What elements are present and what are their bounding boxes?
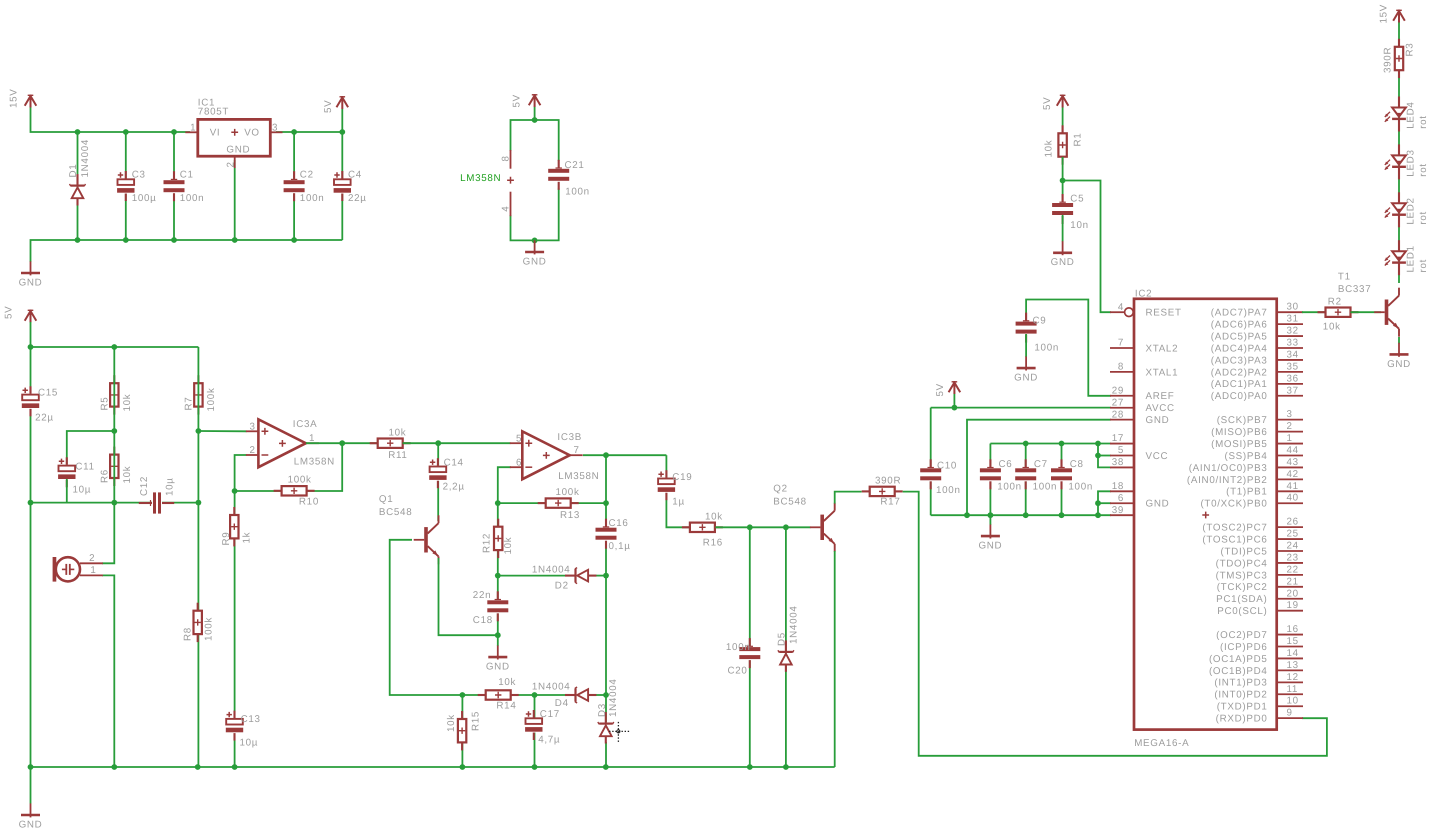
svg-text:T1: T1 [1338,272,1351,283]
pin 14 (OC1A)PD5 (IC2 right) [1209,648,1303,665]
svg-text:C5: C5 [1070,194,1084,205]
svg-text:LM358N: LM358N [294,457,335,468]
pin 16 (OC2)PD7 (IC2 right) [1216,624,1303,641]
svg-text:(T1)PB1: (T1)PB1 [1226,487,1267,498]
ground GND (T1) [1387,343,1411,370]
svg-text:D4: D4 [555,698,569,709]
svg-text:1: 1 [90,565,96,576]
svg-text:D1: D1 [68,164,79,178]
svg-text:8: 8 [501,155,512,161]
svg-text:1N4004: 1N4004 [789,605,800,644]
svg-text:38: 38 [1112,457,1124,468]
svg-text:10k: 10k [705,511,723,522]
wire IC1 pin2 branch [234,160,236,240]
svg-text:100n: 100n [1068,481,1093,492]
pin 24 (TDI)PC5 (IC2 right) [1221,541,1303,558]
voltage regulator IC1 7805T [185,98,282,168]
svg-text:C4: C4 [348,170,362,181]
wire R14 row [460,692,607,698]
svg-text:RESET: RESET [1146,308,1182,319]
resistor R14 10k [478,677,519,712]
svg-text:R15: R15 [470,711,481,731]
capacitor C7 100n [1015,459,1058,493]
svg-text:10: 10 [1287,696,1299,707]
pin 26 (TOSC2)PC7 (IC2 right) [1202,517,1303,534]
svg-text:2: 2 [225,161,236,167]
svg-text:1N4004: 1N4004 [532,564,571,575]
wire op-amp power top [511,107,559,161]
pin 2 (MISO)PB6 (IC2 right) [1211,421,1303,438]
svg-text:10k: 10k [122,394,133,412]
op-amp IC3A LM358N [246,419,335,468]
svg-text:36: 36 [1287,373,1299,384]
wire mid row (C12 net) [31,500,202,506]
svg-text:6: 6 [1118,493,1124,504]
supply 15V input [9,88,37,108]
svg-text:18: 18 [1112,481,1124,492]
svg-text:C20: C20 [728,666,748,677]
svg-text:4: 4 [1118,302,1124,313]
ground GND (power supply) [19,261,43,288]
svg-text:(INT0)PD2: (INT0)PD2 [1214,690,1267,701]
wire C8 column [1061,444,1063,516]
svg-text:15V: 15V [1379,4,1390,24]
svg-text:5V: 5V [512,94,523,107]
svg-text:LM358N: LM358N [558,471,599,482]
svg-text:390R: 390R [1382,47,1393,73]
svg-text:BC548: BC548 [379,507,412,518]
resistor R2 10k [1318,297,1359,333]
svg-text:D5: D5 [777,632,788,646]
svg-text:1: 1 [1287,433,1293,444]
wire C7 column [1025,444,1027,516]
svg-text:(MOSI)PB5: (MOSI)PB5 [1211,439,1267,450]
diode LED1 rot [1385,240,1429,275]
svg-text:GND: GND [1051,257,1075,268]
pin 25 (TOSC1)PC6 (IC2 right) [1202,529,1303,546]
svg-text:LED4: LED4 [1406,101,1417,128]
svg-text:100n: 100n [180,193,205,204]
svg-text:3: 3 [272,122,278,133]
svg-text:44: 44 [1287,445,1299,456]
svg-text:C15: C15 [38,388,58,399]
pin 39 GND group (IC2 left) [1110,505,1134,516]
wire R10 row [235,443,343,491]
capacitor C17 4.7u [524,709,560,745]
svg-text:PC0(SCL): PC0(SCL) [1217,606,1267,617]
pin 5 VCC (IC2 left) [1110,445,1168,462]
svg-text:(TMS)PC3: (TMS)PC3 [1216,570,1268,581]
wire C3 branch [125,132,127,240]
svg-text:1N4004: 1N4004 [608,678,619,717]
svg-text:390R: 390R [875,476,901,487]
svg-text:GND: GND [1014,373,1038,384]
svg-text:D2: D2 [555,581,569,592]
pin 37 (ADC0)PA0 (IC2 right) [1211,385,1303,402]
svg-text:100µ: 100µ [132,193,157,204]
svg-text:10µ: 10µ [73,484,92,495]
svg-text:100k: 100k [556,487,580,498]
resistor R16 10k [682,511,723,548]
wire 15V rail [31,108,191,135]
wire C19 branch [666,455,689,527]
svg-text:BC337: BC337 [1338,284,1371,295]
svg-text:GND: GND [486,662,510,673]
wire VCC pins 5 38 [1095,444,1111,468]
wire GND pins 18 6 39 [1095,491,1111,515]
pin 32 (ADC5)PA5 (IC2 right) [1211,326,1303,343]
svg-text:IC3B: IC3B [557,432,582,443]
wire GND rail [31,237,343,262]
wire Q2 collector to R17 [835,492,862,504]
svg-text:10k: 10k [122,466,133,484]
ground GND (bottom left) [19,803,43,830]
svg-text:Q1: Q1 [379,494,393,505]
wire C6 column [989,444,991,516]
svg-text:(OC1A)PD5: (OC1A)PD5 [1209,654,1268,665]
wire MCU GND pin28 [967,420,1111,516]
resistor R17 390R [862,476,903,508]
svg-text:R17: R17 [880,497,900,508]
svg-text:C19: C19 [672,472,692,483]
svg-text:VO: VO [244,128,260,139]
svg-text:100n: 100n [1034,343,1059,354]
svg-text:22µ: 22µ [35,413,54,424]
svg-text:C2: C2 [300,170,314,181]
svg-text:100k: 100k [204,617,215,641]
svg-text:C8: C8 [1070,459,1084,470]
wire C14 column [437,443,439,521]
svg-text:5V: 5V [1042,97,1053,110]
capacitor C13 10u [225,711,261,749]
svg-text:(SCK)PB7: (SCK)PB7 [1217,415,1268,426]
capacitor C10 100n [920,459,961,496]
svg-text:19: 19 [1287,600,1299,611]
svg-text:22: 22 [1287,564,1299,575]
pin 10 (TXD)PD1 (IC2 right) [1217,696,1303,713]
pin 13 (OC1B)PD4 (IC2 right) [1209,660,1303,677]
svg-text:C16: C16 [609,518,629,529]
svg-text:GND: GND [978,541,1002,552]
pin 36 (ADC1)PA1 (IC2 right) [1211,373,1303,390]
pin 11 (INT0)PD2 (IC2 right) [1214,684,1303,701]
resistor R1 10k [1044,125,1084,164]
wire R11 to IC3B pin5 [403,440,511,446]
wire C18 column [497,576,499,636]
svg-text:15V: 15V [9,88,20,108]
microphone MIC [53,553,103,581]
wire C15 branch [30,347,32,503]
svg-text:0,1µ: 0,1µ [609,541,631,552]
svg-text:10n: 10n [1070,220,1088,231]
svg-text:10µ: 10µ [240,738,259,749]
resistor R15 10k [446,711,482,750]
svg-text:100n: 100n [1033,481,1058,492]
svg-text:C9: C9 [1033,316,1047,327]
capacitor C15 22u [21,386,58,423]
wire AREF net C9 [1026,300,1111,396]
wire IC3B pin6 node [495,467,511,506]
svg-text:(MISO)PB6: (MISO)PB6 [1211,427,1267,438]
pin 34 (ADC3)PA3 (IC2 right) [1211,349,1303,366]
svg-text:GND: GND [19,819,43,830]
supply 15V (LED chain) [1379,4,1405,24]
svg-text:LM358N: LM358N [460,173,501,184]
svg-text:10µ: 10µ [164,477,175,496]
svg-text:R2: R2 [1328,297,1342,308]
supply 5V (op-amp power) [512,94,541,108]
svg-text:LED3: LED3 [1406,149,1417,176]
supply 5V (R1 pull-up) [1042,95,1069,111]
pin 30 (ADC7)PA7 (IC2 right) [1211,302,1303,319]
wire VCC cap rail [990,441,1111,447]
resistor R8 100k [183,603,215,642]
svg-text:43: 43 [1287,457,1299,468]
svg-text:11: 11 [1287,684,1299,695]
svg-text:(OC2)PD7: (OC2)PD7 [1216,630,1267,641]
svg-text:20: 20 [1287,588,1299,599]
svg-text:100n: 100n [997,481,1022,492]
wire Q1 emitter to C18 bottom node [439,558,501,638]
capacitor C2 100n [283,170,324,205]
supply 5V (AVCC) [935,381,960,397]
pin 41 (T1)PB1 (IC2 right) [1226,481,1303,498]
svg-text:(SS)PB4: (SS)PB4 [1224,451,1267,462]
ground GND (op-amp power) [523,240,547,267]
svg-text:10k: 10k [1323,322,1341,333]
svg-text:R16: R16 [703,538,723,549]
wire C2 branch [293,132,295,240]
capacitor C1 100n [163,170,204,205]
capacitor C11 10u [57,457,94,495]
wire LED chain [1398,78,1400,283]
svg-text:(TOSC2)PC7: (TOSC2)PC7 [1202,523,1267,534]
svg-text:C12: C12 [139,476,150,496]
svg-text:(ADC6)PA6: (ADC6)PA6 [1211,320,1268,331]
svg-text:R3: R3 [1405,43,1416,57]
wire D5 column [785,527,787,767]
svg-text:23: 23 [1287,552,1299,563]
supply 5V output [323,96,348,113]
wire PA7 to R2 [1302,311,1326,313]
svg-text:(AIN0/INT2)PB2: (AIN0/INT2)PB2 [1187,475,1268,486]
svg-text:(ICP)PD6: (ICP)PD6 [1220,642,1268,653]
pin 9 (RXD)PD0 (IC2 right) [1216,708,1303,725]
svg-text:5V: 5V [323,100,334,113]
wire Q2 emitter to GND rail [834,551,836,767]
svg-text:rot: rot [1418,115,1429,129]
wire 5V output rail [276,109,345,135]
svg-text:PC1(SDA): PC1(SDA) [1216,594,1267,605]
capacitor C16 0.1u [595,518,631,552]
svg-text:(AIN1/OC0)PB3: (AIN1/OC0)PB3 [1189,463,1268,474]
svg-text:(TXD)PD1: (TXD)PD1 [1217,702,1268,713]
svg-text:R8: R8 [183,627,194,641]
pin 27 AVCC (IC2 left) [1110,397,1175,414]
wire R9 column [234,491,236,767]
pin 17 GND group (IC2 left) [1110,433,1134,444]
svg-text:D3: D3 [597,703,608,717]
microcontroller IC2 MEGA16-A [1134,289,1277,749]
pin 31 (ADC6)PA6 (IC2 right) [1211,314,1303,331]
resistor R9 1k [221,507,252,546]
pin 7 XTAL2 (IC2 left) [1110,338,1178,355]
svg-text:AVCC: AVCC [1146,403,1175,414]
svg-text:100n: 100n [936,485,961,496]
svg-text:rot: rot [1418,259,1429,273]
svg-text:XTAL1: XTAL1 [1146,367,1179,378]
pin 21 (TCK)PC2 (IC2 right) [1217,576,1303,593]
wire C10 column [930,408,932,516]
svg-text:12: 12 [1287,672,1299,683]
svg-text:R10: R10 [299,496,319,507]
svg-text:1N4004: 1N4004 [80,139,91,178]
svg-text:LED2: LED2 [1406,197,1417,224]
wire IC3B output to C19 [583,452,666,503]
resistor R12 10k [482,519,514,558]
svg-text:(ADC3)PA3: (ADC3)PA3 [1211,355,1268,366]
wire C4 branch [341,132,343,240]
diode LED4 rot [1385,97,1429,132]
svg-text:IC2: IC2 [1135,289,1152,300]
wire D2 row [498,575,606,577]
wire AVCC row [931,394,1111,411]
capacitor C19 1u [657,470,692,507]
capacitor C4 22u [333,170,367,205]
svg-text:26: 26 [1287,517,1299,528]
svg-text:R14: R14 [496,700,516,711]
svg-text:(INT1)PD3: (INT1)PD3 [1214,678,1267,689]
capacitor C5 10n [1052,194,1089,232]
svg-text:(RXD)PD0: (RXD)PD0 [1216,714,1268,725]
wire R12 column [495,503,501,578]
svg-text:R7: R7 [183,397,194,411]
svg-text:(ADC0)PA0: (ADC0)PA0 [1211,391,1268,402]
svg-text:C18: C18 [473,615,493,626]
svg-text:2: 2 [250,445,256,456]
svg-text:(TDO)PC4: (TDO)PC4 [1216,558,1268,569]
svg-text:(T0/XCK)PB0: (T0/XCK)PB0 [1200,499,1267,510]
wire T1 emitter to GND [1398,337,1400,344]
svg-text:2: 2 [1287,421,1293,432]
wire GND drop bottom left [30,767,32,804]
svg-text:7: 7 [574,445,580,456]
diode D4 1N4004 [532,681,597,709]
svg-text:(TCK)PC2: (TCK)PC2 [1217,582,1268,593]
svg-text:(ADC4)PA4: (ADC4)PA4 [1211,343,1268,354]
transistor T1 BC337 [1338,272,1399,337]
svg-text:100k: 100k [206,387,217,411]
capacitor C18 22n [473,590,509,626]
svg-text:14: 14 [1287,648,1299,659]
svg-text:5V: 5V [4,306,15,319]
wire R15 column [461,695,463,767]
svg-text:41: 41 [1287,481,1299,492]
wire Q1 base net [390,540,463,695]
svg-text:(ADC1)PA1: (ADC1)PA1 [1211,379,1268,390]
op-amp power pins IC3P LM358N [460,150,514,216]
svg-text:10k: 10k [389,428,407,439]
pin 44 (SS)PB4 (IC2 right) [1224,445,1303,462]
resistor R13 100k [538,487,580,521]
svg-text:C17: C17 [540,709,560,720]
svg-text:15: 15 [1287,636,1299,647]
diode D5 1N4004 [777,605,800,671]
svg-text:1µ: 1µ [672,496,685,507]
pin 3 (SCK)PB7 (IC2 right) [1217,409,1303,426]
wire C5 to GND [1062,215,1064,242]
svg-text:22µ: 22µ [348,193,367,204]
svg-text:(OC1B)PD4: (OC1B)PD4 [1209,666,1268,677]
svg-text:C13: C13 [241,714,261,725]
svg-text:17: 17 [1112,433,1124,444]
pin 23 (TDO)PC4 (IC2 right) [1216,552,1303,569]
svg-text:GND: GND [1146,499,1170,510]
svg-text:33: 33 [1287,338,1299,349]
svg-text:AREF: AREF [1146,391,1175,402]
svg-text:C14: C14 [444,457,464,468]
svg-text:27: 27 [1112,397,1124,408]
svg-text:MEGA16-A: MEGA16-A [1134,738,1189,749]
pin 6 GND (IC2 left) [1110,493,1169,510]
svg-text:Q2: Q2 [773,484,787,495]
svg-text:100n: 100n [300,193,325,204]
svg-text:1k: 1k [241,532,252,544]
resistor R11 10k [370,428,411,461]
svg-text:3: 3 [250,421,256,432]
capacitor C21 100n [548,160,590,198]
svg-text:VI: VI [210,128,221,139]
ground GND (C5) [1051,241,1075,268]
svg-text:C3: C3 [132,170,146,181]
svg-text:C11: C11 [75,461,94,472]
svg-text:34: 34 [1287,349,1299,360]
wire IC3A pin2 feedback node [232,455,247,494]
svg-text:100k: 100k [288,475,312,486]
svg-text:GND: GND [1387,359,1411,370]
svg-text:39: 39 [1112,505,1124,516]
svg-text:24: 24 [1287,541,1299,552]
svg-text:25: 25 [1287,529,1299,540]
pin 40 (T0/XCK)PB0 (IC2 right) [1200,493,1303,510]
pin 20 PC1(SDA) (IC2 right) [1216,588,1303,605]
pin 42 (AIN0/INT2)PB2 (IC2 right) [1187,469,1303,486]
pin 19 PC0(SCL) (IC2 right) [1217,600,1303,617]
svg-text:1: 1 [190,122,196,133]
svg-text:(ADC5)PA5: (ADC5)PA5 [1211,331,1268,342]
ground GND (MCU caps) [978,515,1002,551]
svg-text:100n: 100n [565,186,590,197]
pin 38 GND group (IC2 left) [1110,457,1134,468]
svg-text:R12: R12 [482,533,493,553]
pin 29 AREF (IC2 left) [1110,385,1174,402]
svg-text:13: 13 [1287,660,1299,671]
diode LED2 rot [1385,192,1429,227]
svg-text:9: 9 [1287,708,1293,719]
transistor Q2 BC548 [773,484,834,552]
svg-text:R9: R9 [221,532,232,546]
svg-text:8: 8 [1118,362,1124,373]
svg-text:R6: R6 [99,469,110,483]
svg-text:LED1: LED1 [1406,245,1417,272]
svg-text:7: 7 [1118,338,1124,349]
svg-text:31: 31 [1287,314,1299,325]
wire C11 bottom [66,479,68,503]
svg-text:R13: R13 [560,510,580,521]
svg-text:32: 32 [1287,326,1299,337]
capacitor C9 100n [1015,313,1059,354]
resistor R3 390R [1382,39,1415,78]
